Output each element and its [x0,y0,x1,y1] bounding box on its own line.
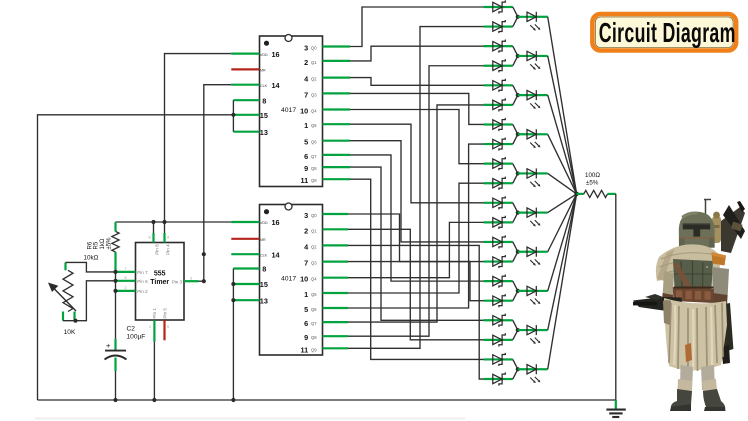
svg-text:11: 11 [300,176,308,185]
junction star node [574,192,579,197]
diode D6 [484,98,513,111]
wire bracket joining U2 pins 8,15,13 down to ground rail [232,269,234,401]
svg-text:6: 6 [125,276,127,280]
svg-text:Q1: Q1 [311,60,317,65]
svg-text:Q1: Q1 [311,228,317,233]
wire diode pair 9 join [513,320,520,340]
svg-text:Circuit Diagram: Circuit Diagram [599,17,736,48]
svg-text:Pin 1: Pin 1 [152,308,157,319]
junction U1 pin15 node [231,113,235,117]
diode D2 [484,20,513,33]
svg-text:8: 8 [262,96,266,105]
wire VDD rail to U1 pin16 [165,54,232,233]
wire U1 Q7 to diode row 15 [350,155,484,281]
diode D12 [484,216,513,229]
IC U1 output pin stubs Q0-Q9 [323,47,351,180]
svg-text:CLK: CLK [260,84,268,88]
svg-text:VDD: VDD [260,221,268,225]
svg-text:Q6: Q6 [311,307,317,312]
diode D9 [484,157,513,170]
svg-text:Timer: Timer [150,279,169,286]
diode D13 [484,235,513,248]
svg-text:Q5: Q5 [311,292,317,297]
svg-text:Q3: Q3 [311,261,317,266]
svg-text:3: 3 [304,211,308,220]
svg-text:8: 8 [149,236,151,240]
wire 555 pin8 up to VDD node [153,222,155,233]
svg-text:6: 6 [304,319,308,328]
wire pot top to pin7 node [66,262,116,272]
diode D11 [484,196,513,209]
svg-text:5: 5 [304,138,308,147]
svg-text:Pin 4: Pin 4 [165,244,170,255]
IC U1 pin 13 stub [233,131,259,133]
wire U1 Q0 to diode row 1 [350,7,484,47]
svg-text:4: 4 [167,236,169,240]
svg-text:C2: C2 [127,326,136,333]
svg-text:555: 555 [154,270,166,277]
junction pin6 node [113,279,117,283]
wire 555 pin3 to clock rail [199,280,204,282]
wire pot bottom to pin6 node [63,281,116,321]
svg-text:±5%: ±5% [586,180,599,187]
555 pin3 output stub [184,280,199,282]
diode D18 [484,333,513,346]
svg-text:10K: 10K [64,329,76,336]
svg-text:Q7: Q7 [311,154,317,159]
decorative figure [633,200,745,412]
junction clock at U2 CLK [202,252,206,256]
faint artifact band [35,417,465,420]
junction ground rail at U2 bracket [231,398,235,402]
wire LED4 cathode to star node [548,134,577,194]
wire bracket joining U1 pins 8,15,13 [232,100,234,132]
svg-text:Q0: Q0 [311,213,317,218]
IC U2 4017 decade counter [260,203,323,355]
svg-text:VDD: VDD [260,53,268,57]
LED LED10 [518,364,548,383]
svg-text:7: 7 [304,90,308,99]
svg-text:16: 16 [272,218,280,227]
wire diode pair 5 join [513,164,520,184]
wire diode pair 8 join [513,281,520,301]
svg-text:MR: MR [260,69,266,73]
wire resistor to ground corner [615,194,617,400]
junction 555 pin1 ground [152,398,156,402]
svg-text:7: 7 [125,267,127,271]
IC U1 pin 15 stub [233,114,259,116]
diode D15 [484,275,513,288]
IC U1 pin MR red stub [231,68,259,70]
wire U1 Q8 to diode row 17 [350,167,484,320]
IC U1 pin 14 CLK stub [231,84,259,86]
IC U1 4017 decade counter [260,35,323,187]
IC U2 pin 8 stub [233,267,259,269]
svg-text:14: 14 [272,81,281,90]
svg-text:1kΩ: 1kΩ [100,238,106,249]
diode D1 [484,0,513,13]
svg-text:1: 1 [304,121,308,130]
wire diode pair 6 join [513,203,520,223]
IC U2 pin 15 stub [233,283,259,285]
diode D4 [484,59,513,72]
diode D16 [484,294,513,307]
wire LED6 cathode to star node [548,194,577,213]
svg-text:Q8: Q8 [311,335,317,340]
IC U2 pin 16 VDD stub [231,221,259,223]
svg-text:8: 8 [262,265,266,274]
potentiometer R6 10K [48,262,76,336]
diode D14 [484,255,513,268]
svg-text:Q2: Q2 [311,244,317,249]
capacitor C2 100uF [105,326,146,372]
wire LED3 cathode to star node [548,95,577,194]
svg-text:11: 11 [300,345,308,354]
svg-text:Q2: Q2 [311,77,317,82]
svg-text:100µF: 100µF [127,333,146,340]
wire diode pair 1 join [513,7,520,27]
wire clock rail vertical to U1 CLK and U2 CLK [204,85,232,282]
wire U1 Q4 to diode row 9 [350,110,484,164]
wire U2 Q9 to diode row 2 [348,27,484,349]
resistor R5 1k [84,222,120,272]
LED LED9 [518,325,548,344]
junction VDD at 555 pin8 [151,220,155,224]
diode D5 [484,79,513,92]
wire U1 pin15 long reset loop to ground rail [38,115,234,400]
diode D10 [484,177,513,190]
ground [606,400,625,417]
svg-text:Q8: Q8 [311,166,317,171]
IC U1 pin 16 VDD stub [231,52,259,54]
wire U2 Q4 to diode row 12 [348,222,484,277]
svg-text:Q9: Q9 [311,178,317,183]
svg-text:±5%: ±5% [107,237,113,250]
wire U2 Q2 to diode row 20 [348,245,484,379]
wire R5 bottom / pin7 node down to pin2 and capacitor [115,272,117,339]
svg-text:2: 2 [304,58,308,67]
svg-text:5: 5 [167,325,169,329]
555 pin8 stub [152,233,154,243]
svg-text:14: 14 [272,251,281,260]
wire U2 Q1 to diode row 18 [348,229,484,340]
LED LED4 [518,129,548,148]
svg-text:2: 2 [125,286,127,290]
wire LED2 cathode to star node [548,56,577,194]
wire U2 Q0 to diode row 14 [348,214,484,262]
title badge Circuit Diagram [592,14,736,51]
IC U2 pin 13 stub [233,299,259,301]
diode D19 [484,353,513,366]
diode D20 [484,372,513,385]
svg-text:Q5: Q5 [311,123,317,128]
svg-text:Q6: Q6 [311,140,317,145]
svg-text:4017: 4017 [281,107,296,114]
svg-text:10kΩ: 10kΩ [84,255,99,262]
wire VDD rail y222 R5 top to U2 pin16 [116,221,232,223]
555 pin2 stub [116,290,136,292]
IC U2 pin 14 CLK stub [231,253,259,255]
wire U1 Q9 to diode row 19 [350,179,484,359]
wire LED9 cathode to star node [548,194,577,330]
wire U1 Q2 to diode row 5 [350,78,484,86]
wire LED1 cathode to star node [548,17,577,194]
svg-text:Q4: Q4 [311,277,317,282]
svg-text:9: 9 [304,164,308,173]
LED LED8 [518,286,548,305]
svg-text:Pin 6: Pin 6 [137,279,148,284]
svg-text:16: 16 [272,50,280,59]
diode D17 [484,314,513,327]
LED LED1 [518,12,548,31]
svg-text:100Ω: 100Ω [585,172,600,179]
wire U2 Q8 to diode row 4 [348,66,484,336]
junction pin2 node [113,289,117,293]
svg-text:Q7: Q7 [311,321,317,326]
svg-text:1: 1 [149,325,151,329]
wire LED10 cathode to star node [548,194,577,369]
wire diode pair 10 join [513,359,520,379]
svg-text:Pin 5: Pin 5 [162,308,167,319]
svg-text:10: 10 [300,275,308,284]
wire diode pair 2 join [513,46,520,66]
op 555 timer U3 [136,243,185,321]
LED LED2 [518,51,548,70]
LED LED5 [518,168,548,187]
junction capacitor ground [113,398,117,402]
diode D8 [484,137,513,150]
wire LED8 cathode to star node [548,194,577,291]
svg-text:Q0: Q0 [311,46,317,51]
svg-text:1: 1 [304,290,308,299]
svg-text:6: 6 [304,152,308,161]
svg-text:7: 7 [304,259,308,268]
wire U1 Q3 to diode row 7 [350,93,484,124]
svg-text:R5: R5 [94,241,100,249]
wire U1 Q5 to diode row 11 [350,124,484,203]
svg-text:Pin 8: Pin 8 [154,244,159,255]
junction pot bottom [73,319,77,323]
svg-text:3: 3 [304,44,308,53]
diode D3 [484,40,513,53]
svg-text:CLK: CLK [260,253,268,257]
wire diode pair 7 join [513,242,520,262]
wire U2 Q5 to diode row 10 [348,183,484,293]
wire U2 Q6 to diode row 8 [348,144,484,308]
555 pin4 stub [163,233,165,243]
diode D7 [484,118,513,131]
555 pin5 red stub [163,320,165,340]
svg-text:Pin 2: Pin 2 [137,289,148,294]
svg-text:MR: MR [260,238,266,242]
IC U1 pin 8 stub [233,99,259,101]
wire diode pair 3 join [513,85,520,105]
LED LED3 [518,90,548,109]
svg-text:+: + [106,341,111,350]
svg-text:13: 13 [260,296,268,305]
resistor R1 100 ohm [577,172,616,198]
junction U2 pin15 node [231,282,235,286]
wire diode pair 4 join [513,124,520,144]
wire capacitor to ground rail [115,371,117,400]
svg-text:15: 15 [260,280,268,289]
wire U2 Q7 to diode row 6 [348,105,484,322]
junction U2 pin13 node [231,298,235,302]
wire ground rail bottom [38,399,616,401]
svg-text:3: 3 [190,277,192,281]
svg-text:Pin 3: Pin 3 [172,280,183,285]
IC U2 pin MR red stub [231,238,259,240]
svg-text:9: 9 [304,333,308,342]
IC U2 output pin stubs Q0-Q9 [323,214,349,348]
LED LED7 [518,247,548,266]
svg-text:4017: 4017 [281,276,296,283]
555 pin7 stub [116,271,136,273]
svg-text:15: 15 [260,111,268,120]
svg-text:2: 2 [304,226,308,235]
svg-text:5: 5 [304,305,308,314]
svg-text:13: 13 [260,128,268,137]
svg-text:Q9: Q9 [311,347,317,352]
junction VDD at 555 pin4 [162,220,166,224]
555 pin6 stub [116,280,136,282]
svg-text:Pin 7: Pin 7 [137,270,148,275]
wire LED7 cathode to star node [548,194,577,252]
wire U2 Q3 to diode row 16 [348,262,484,301]
LED LED6 [518,208,548,227]
555 pin1 stub [153,320,155,342]
junction clock at 555 pin3 [202,279,206,283]
wire U1 Q1 to diode row 3 [350,46,484,61]
wire 555 pin1 to ground rail [153,342,155,400]
svg-text:Q4: Q4 [311,109,317,114]
wire U1 Q6 to diode row 13 [350,141,484,242]
svg-text:Q3: Q3 [311,92,317,97]
junction pin7 node [113,270,117,274]
svg-text:10: 10 [300,107,308,116]
wire LED5 cathode to star node [548,173,577,193]
